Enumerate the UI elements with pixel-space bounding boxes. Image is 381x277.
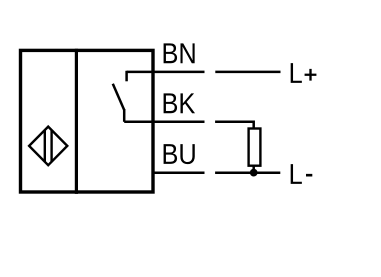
diamond right inner chord [50, 130, 52, 162]
label BN [164, 43, 195, 63]
load resistor R [249, 129, 261, 166]
sensor housing divider [75, 49, 78, 194]
wire BN segment from switch to break [127, 71, 205, 74]
switch lower lead [123, 109, 126, 122]
switch fixed contact stub [125, 71, 128, 82]
sensor housing outline [21, 50, 154, 192]
label BK [164, 93, 195, 113]
junction dot on L- wire [250, 169, 258, 177]
diamond left inner chord [44, 130, 46, 162]
wire BK segment to load resistor [215, 122, 254, 129]
label L- [291, 164, 313, 184]
switch blade (normally open contact) [113, 84, 124, 110]
sensing-face diamond symbol [29, 127, 67, 166]
label BU [164, 144, 195, 164]
wire BN segment to L+ [215, 71, 280, 74]
label L+ [291, 63, 317, 83]
resistor lower lead [252, 166, 255, 173]
wire BU segment from housing to break [153, 172, 205, 175]
wire BU segment to L- [215, 172, 280, 175]
wire BK segment from switch to break [124, 121, 204, 124]
